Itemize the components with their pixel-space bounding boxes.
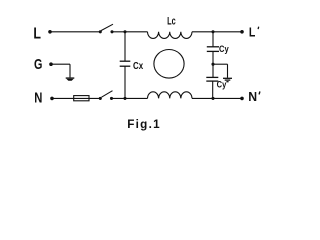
- svg-text:Lc: Lc: [167, 15, 176, 27]
- svg-text:G: G: [34, 55, 42, 72]
- svg-text:N: N: [34, 89, 42, 106]
- svg-text:L: L: [249, 24, 255, 39]
- svg-text:Cx: Cx: [133, 60, 144, 71]
- svg-text:N: N: [248, 88, 257, 104]
- svg-text:Fig.1: Fig.1: [127, 118, 161, 131]
- svg-text:L: L: [33, 24, 41, 42]
- svg-text:Cy: Cy: [217, 79, 227, 90]
- svg-text:Cy: Cy: [219, 43, 229, 54]
